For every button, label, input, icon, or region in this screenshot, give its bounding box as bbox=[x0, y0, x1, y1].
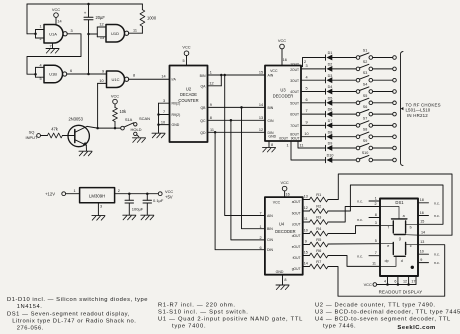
svg-text:7: 7 bbox=[163, 110, 165, 114]
svg-text:276-056.: 276-056. bbox=[17, 325, 44, 331]
svg-text:fOUT: fOUT bbox=[293, 256, 301, 260]
switch S2 bbox=[356, 60, 372, 71]
svg-text:11: 11 bbox=[133, 28, 137, 32]
svg-text:VCC: VCC bbox=[52, 7, 60, 12]
U1A pin labels bbox=[39, 19, 72, 48]
capacitor 0.1uF bbox=[143, 194, 164, 215]
svg-text:n.c.: n.c. bbox=[357, 218, 363, 222]
wire S2 to choke terminal bbox=[373, 67, 397, 71]
svg-text:10: 10 bbox=[161, 120, 165, 124]
wire R3 to DS1 pin2 bbox=[328, 207, 380, 223]
switch S1 bbox=[356, 49, 372, 60]
wire bbox=[141, 4, 143, 10]
svg-text:10: 10 bbox=[304, 132, 308, 136]
svg-text:dp: dp bbox=[385, 259, 389, 263]
svg-text:3: 3 bbox=[305, 64, 307, 68]
wire D9 to S9 bbox=[332, 147, 356, 149]
wire S1 to choke terminal bbox=[373, 56, 397, 60]
svg-text:type 7400.: type 7400. bbox=[172, 324, 206, 330]
diode D5 bbox=[326, 96, 333, 105]
terminal VCC DS1 bbox=[364, 282, 377, 287]
svg-text:6OUT: 6OUT bbox=[290, 113, 299, 117]
svg-text:SeekIC.com: SeekIC.com bbox=[397, 325, 435, 331]
svg-text:S9: S9 bbox=[363, 139, 368, 143]
svg-text:b: b bbox=[410, 226, 412, 230]
resistor 10k bbox=[113, 108, 127, 122]
DS1 pin3 label bbox=[375, 221, 377, 225]
svg-text:n.c.: n.c. bbox=[434, 201, 440, 205]
svg-text:AIN: AIN bbox=[267, 214, 273, 218]
svg-text:DIN: DIN bbox=[268, 131, 275, 135]
wire QA drop bbox=[225, 75, 265, 216]
wire bbox=[27, 30, 44, 39]
ground emitter bbox=[79, 145, 92, 156]
switch S6 bbox=[356, 105, 372, 116]
NAND gate U1D bbox=[106, 25, 129, 43]
svg-text:3: 3 bbox=[70, 29, 72, 33]
svg-text:VCC: VCC bbox=[273, 200, 281, 204]
svg-text:D7: D7 bbox=[328, 119, 333, 123]
svg-text:QD: QD bbox=[200, 131, 206, 135]
svg-text:R2: R2 bbox=[316, 204, 321, 209]
svg-text:7: 7 bbox=[375, 251, 377, 255]
svg-text:12: 12 bbox=[209, 81, 213, 85]
svg-text:BIN: BIN bbox=[268, 106, 274, 110]
diode D6 bbox=[326, 108, 333, 117]
wire D4 to S4 bbox=[332, 91, 356, 93]
svg-text:14: 14 bbox=[259, 103, 263, 107]
resistor R7 bbox=[310, 259, 329, 269]
caption column 2 bbox=[158, 303, 303, 330]
switch S5 bbox=[356, 94, 372, 105]
decoder U3 box bbox=[265, 66, 301, 142]
wire U3 out5 bbox=[301, 98, 326, 103]
wire QA node bbox=[208, 74, 266, 86]
svg-text:HOLD: HOLD bbox=[130, 127, 141, 132]
svg-text:0OUT: 0OUT bbox=[279, 137, 288, 141]
svg-text:6: 6 bbox=[259, 246, 261, 250]
svg-text:U3: U3 bbox=[280, 88, 286, 93]
U3 left pin labels bbox=[259, 71, 274, 135]
svg-text:DECADE: DECADE bbox=[180, 92, 197, 97]
switch S4 bbox=[356, 83, 372, 94]
wire U3 out8 bbox=[301, 132, 326, 137]
Vcc terminal U2 pin 5 bbox=[182, 45, 190, 66]
svg-text:U2 — Decade counter, TTL type: U2 — Decade counter, TTL type 7490. bbox=[315, 303, 436, 309]
U1C pin labels bbox=[99, 69, 135, 83]
wire bbox=[129, 26, 143, 33]
ground U3 pin 8 bbox=[263, 141, 276, 152]
svg-text:aOUT: aOUT bbox=[292, 200, 301, 204]
svg-text:I/A: I/A bbox=[172, 78, 177, 82]
svg-text:11: 11 bbox=[304, 217, 308, 221]
DS1 pin15 label bbox=[420, 220, 424, 224]
svg-text:8: 8 bbox=[133, 74, 135, 78]
svg-text:5: 5 bbox=[305, 87, 307, 91]
wire QD drop bbox=[215, 132, 265, 249]
svg-text:+12V: +12V bbox=[45, 191, 55, 196]
wire DS1 common bbox=[377, 276, 416, 286]
svg-text:S5: S5 bbox=[363, 94, 368, 98]
svg-text:47k: 47k bbox=[51, 127, 59, 132]
wire U1C in10 bbox=[98, 83, 107, 128]
wire R1 to DS1 pin14 bbox=[328, 174, 452, 235]
DS1 pin5 label bbox=[375, 239, 377, 243]
Vcc terminal U3 pin 16 bbox=[278, 38, 287, 66]
svg-text:14: 14 bbox=[57, 19, 61, 23]
svg-text:COUNTER: COUNTER bbox=[178, 98, 198, 103]
svg-text:10: 10 bbox=[420, 250, 424, 254]
svg-text:D1: D1 bbox=[328, 51, 333, 55]
diode D4 bbox=[326, 85, 333, 94]
svg-text:15: 15 bbox=[420, 220, 424, 224]
svg-text:U1D: U1D bbox=[111, 31, 119, 36]
svg-text:8: 8 bbox=[284, 278, 286, 282]
wire pin2 to a bbox=[380, 207, 399, 219]
svg-text:D8: D8 bbox=[328, 130, 333, 134]
junction bbox=[87, 73, 90, 76]
U1D pin labels bbox=[99, 22, 137, 40]
wire D3 to S3 bbox=[332, 79, 356, 81]
svg-text:1: 1 bbox=[39, 25, 41, 29]
svg-text:g: g bbox=[399, 237, 401, 241]
segment f bbox=[388, 221, 394, 233]
wire QC drop bbox=[231, 120, 265, 240]
svg-text:D4: D4 bbox=[328, 85, 333, 89]
svg-text:BIN: BIN bbox=[267, 227, 273, 231]
diode D2 bbox=[326, 63, 333, 72]
svg-text:TO RF CHOKES: TO RF CHOKES bbox=[406, 102, 441, 107]
svg-text:10k: 10k bbox=[120, 109, 128, 114]
svg-text:IN HR212: IN HR212 bbox=[407, 113, 428, 118]
Vcc terminal U1A pin 14 bbox=[52, 7, 60, 24]
svg-text:14: 14 bbox=[304, 262, 308, 266]
svg-text:DS1 — Seven-segment readout di: DS1 — Seven-segment readout display, bbox=[7, 312, 130, 318]
wire bbox=[114, 122, 117, 130]
svg-text:1: 1 bbox=[210, 71, 212, 75]
svg-text:VCC: VCC bbox=[278, 38, 286, 43]
svg-text:n.c.: n.c. bbox=[357, 200, 363, 204]
svg-text:14: 14 bbox=[161, 74, 165, 78]
svg-text:QB: QB bbox=[200, 106, 206, 110]
svg-text:5: 5 bbox=[182, 59, 184, 63]
segment b bbox=[406, 221, 412, 233]
svg-text:9: 9 bbox=[102, 69, 104, 73]
switch S9 bbox=[356, 139, 372, 150]
wire QB bbox=[208, 106, 266, 109]
decoder U4 box bbox=[265, 197, 303, 275]
svg-text:R6: R6 bbox=[316, 248, 321, 253]
wire bbox=[41, 135, 48, 137]
wire U3 out9 bbox=[298, 141, 326, 148]
svg-text:S3: S3 bbox=[363, 71, 368, 75]
svg-text:9: 9 bbox=[210, 103, 212, 107]
segment c bbox=[406, 243, 412, 255]
svg-text:13: 13 bbox=[259, 116, 263, 120]
switch S10 bbox=[356, 151, 372, 162]
svg-text:3: 3 bbox=[375, 221, 377, 225]
switch S7 bbox=[356, 116, 372, 127]
svg-text:R5: R5 bbox=[316, 237, 321, 242]
wire bbox=[66, 189, 80, 194]
DS1 pin16 nc bbox=[418, 211, 440, 218]
segment d bbox=[394, 256, 405, 263]
svg-text:1000: 1000 bbox=[147, 16, 157, 21]
svg-text:U1C: U1C bbox=[111, 77, 119, 82]
ground HOLD bbox=[133, 138, 146, 143]
DS1 pin13 label bbox=[420, 240, 424, 244]
wire R4 to DS1 pin3 bbox=[328, 226, 380, 234]
switch S3 bbox=[356, 71, 372, 82]
svg-text:S10: S10 bbox=[362, 151, 369, 155]
svg-text:6: 6 bbox=[70, 69, 72, 73]
svg-text:D6: D6 bbox=[328, 108, 333, 112]
svg-text:2: 2 bbox=[118, 189, 120, 193]
Vcc terminal U4 pin 16 bbox=[280, 180, 289, 197]
svg-text:D1-D10 incl. — Silicon switchi: D1-D10 incl. — Silicon switching diodes,… bbox=[7, 297, 148, 303]
wire S9 to choke terminal bbox=[373, 146, 397, 150]
terminal +12V bbox=[45, 191, 66, 196]
svg-text:L501—L510: L501—L510 bbox=[406, 108, 431, 113]
svg-text:100µF: 100µF bbox=[132, 206, 144, 211]
svg-text:15: 15 bbox=[259, 71, 263, 75]
svg-text:9: 9 bbox=[305, 121, 307, 125]
U2 pin14 label bbox=[161, 74, 176, 81]
resistor R4 bbox=[310, 226, 329, 236]
wire pin13 to c bbox=[406, 244, 418, 246]
svg-text:VCC: VCC bbox=[364, 282, 372, 287]
svg-text:4: 4 bbox=[305, 75, 307, 79]
DS1 pin2 label bbox=[374, 202, 376, 206]
U4 out pin 12 bbox=[292, 206, 310, 215]
svg-text:9: 9 bbox=[305, 240, 307, 244]
svg-text:7OUT: 7OUT bbox=[290, 124, 299, 128]
resistor 47k bbox=[47, 127, 62, 138]
svg-text:1: 1 bbox=[375, 196, 377, 200]
svg-text:VCC: VCC bbox=[270, 69, 278, 73]
wire pin14 to g bbox=[405, 234, 418, 236]
svg-text:1: 1 bbox=[259, 225, 261, 229]
svg-text:+5V: +5V bbox=[165, 194, 173, 199]
svg-text:GND: GND bbox=[276, 270, 284, 274]
NAND gate U1A bbox=[44, 25, 67, 44]
svg-text:S8: S8 bbox=[363, 128, 368, 132]
svg-text:13: 13 bbox=[304, 195, 308, 199]
wire U3 out3 bbox=[301, 75, 326, 80]
wire bbox=[62, 135, 68, 137]
svg-text:CIN: CIN bbox=[268, 119, 275, 123]
svg-text:D2: D2 bbox=[328, 63, 333, 67]
svg-text:S4: S4 bbox=[363, 83, 368, 87]
ground cap1 bbox=[123, 215, 136, 220]
capacitor 100uF bbox=[125, 194, 144, 215]
display DS1 box bbox=[380, 199, 418, 277]
svg-text:GND: GND bbox=[172, 123, 180, 127]
U4 left pin labels bbox=[259, 212, 273, 252]
wire R7 to DS1 pin13 bbox=[328, 245, 445, 297]
diode D8 bbox=[326, 130, 333, 139]
decimal point bbox=[385, 259, 414, 269]
segment a bbox=[392, 214, 407, 219]
svg-text:R1-R7 incl. — 220 ohm.: R1-R7 incl. — 220 ohm. bbox=[158, 303, 236, 309]
svg-text:S1: S1 bbox=[363, 49, 368, 53]
label TO RF CHOKES bbox=[406, 102, 441, 118]
watermark SeekIC.com bbox=[397, 325, 435, 331]
wire U3 out6 bbox=[301, 109, 326, 114]
wire U3 out7 bbox=[301, 121, 326, 126]
svg-text:11: 11 bbox=[372, 262, 376, 266]
wire S4 to choke terminal bbox=[373, 90, 397, 94]
DS1 pin14 label bbox=[421, 231, 425, 235]
svg-text:2OUT: 2OUT bbox=[290, 68, 299, 72]
svg-text:VCC: VCC bbox=[111, 93, 119, 98]
svg-text:LM309H: LM309H bbox=[89, 194, 105, 199]
wire QB drop bbox=[242, 107, 265, 228]
wire S3 to choke terminal bbox=[373, 78, 397, 82]
junction bbox=[87, 33, 90, 36]
svg-text:9OUT: 9OUT bbox=[291, 137, 300, 141]
wire pin5 to e bbox=[380, 243, 393, 245]
svg-text:BIN: BIN bbox=[200, 74, 206, 78]
svg-text:R9(2): R9(2) bbox=[172, 113, 181, 117]
svg-text:S7: S7 bbox=[363, 116, 368, 120]
wire S10 to choke terminal bbox=[373, 158, 397, 162]
svg-text:VCC: VCC bbox=[165, 189, 173, 194]
svg-text:DIN: DIN bbox=[267, 248, 274, 252]
svg-text:D9: D9 bbox=[328, 142, 333, 146]
svg-text:12: 12 bbox=[259, 128, 263, 132]
wire S7 to choke terminal bbox=[373, 124, 397, 128]
U4 out pin 15 bbox=[293, 251, 310, 260]
svg-text:16: 16 bbox=[283, 58, 287, 62]
svg-text:bOUT: bOUT bbox=[292, 211, 301, 215]
ground cap2 bbox=[141, 215, 154, 220]
svg-text:6: 6 bbox=[305, 98, 307, 102]
svg-text:10: 10 bbox=[304, 229, 308, 233]
wire R6 to DS1 pin11 bbox=[328, 256, 380, 267]
svg-text:3OUT: 3OUT bbox=[290, 79, 299, 83]
wire D1 to S1 bbox=[332, 57, 356, 59]
resistor R6 bbox=[310, 248, 329, 258]
svg-text:eOUT: eOUT bbox=[292, 245, 301, 249]
svg-text:16: 16 bbox=[285, 192, 289, 196]
svg-text:n.c.: n.c. bbox=[434, 214, 440, 218]
svg-text:S2: S2 bbox=[363, 60, 368, 64]
svg-text:8: 8 bbox=[271, 143, 273, 147]
svg-text:n.c.: n.c. bbox=[434, 261, 440, 265]
resistor R1 bbox=[310, 192, 329, 202]
svg-text:U3 — BCD-to-decimal decoder, T: U3 — BCD-to-decimal decoder, TTL type 74… bbox=[315, 310, 460, 316]
wire U3 out0 bbox=[286, 141, 325, 160]
wire R5 to DS1 pin5 bbox=[328, 243, 380, 245]
svg-text:SCAN: SCAN bbox=[139, 116, 150, 121]
DS1 pin7 nc bbox=[357, 251, 380, 258]
wire U3 out2 bbox=[301, 64, 326, 69]
wire R2 to DS1 pin15 bbox=[328, 185, 443, 224]
svg-text:S1-S10 incl. — Spst switch.: S1-S10 incl. — Spst switch. bbox=[158, 310, 249, 316]
svg-text:AIN: AIN bbox=[268, 74, 274, 78]
svg-text:gOUT: gOUT bbox=[292, 267, 301, 271]
svg-text:10: 10 bbox=[99, 79, 103, 83]
U4 out pin 11 bbox=[292, 217, 310, 226]
wire pin15 to b bbox=[406, 223, 418, 225]
segment g bbox=[394, 235, 405, 241]
wire U1C out to U2 bbox=[129, 78, 170, 80]
resistor R5 bbox=[310, 237, 329, 247]
svg-text:R3: R3 bbox=[316, 215, 321, 220]
U3 right out labels bbox=[279, 62, 299, 140]
svg-text:7: 7 bbox=[259, 212, 261, 216]
wire D6 to S6 bbox=[332, 113, 356, 115]
svg-text:R0(2): R0(2) bbox=[172, 102, 181, 106]
svg-text:GND: GND bbox=[268, 134, 276, 138]
wire node bbox=[98, 127, 121, 129]
svg-text:D10: D10 bbox=[327, 154, 334, 158]
svg-text:U1 — Quad 2-input positive NAN: U1 — Quad 2-input positive NAND gate, TT… bbox=[158, 317, 303, 323]
svg-text:U1A: U1A bbox=[49, 31, 57, 36]
U2 right pin labels bbox=[200, 71, 214, 135]
wire D7 to S7 bbox=[332, 124, 356, 126]
svg-text:3: 3 bbox=[163, 99, 165, 103]
bracket RF chokes bbox=[401, 52, 404, 166]
DS1 pin10 nc bbox=[418, 250, 440, 257]
svg-text:4: 4 bbox=[384, 279, 386, 283]
diode D9 bbox=[326, 142, 333, 151]
svg-text:INPUT: INPUT bbox=[26, 135, 39, 140]
Vcc terminal 10k bbox=[111, 93, 119, 107]
svg-text:5OUT: 5OUT bbox=[290, 101, 299, 105]
wire pin11 to d bbox=[380, 256, 396, 266]
U4 out pin 13 bbox=[292, 195, 310, 204]
wire D2 to S2 bbox=[332, 68, 356, 70]
wire D8 to S8 bbox=[332, 136, 356, 138]
ground U4 pin 8 bbox=[276, 275, 289, 290]
svg-text:e: e bbox=[387, 244, 389, 248]
wire QC bbox=[208, 119, 266, 122]
svg-text:4OUT: 4OUT bbox=[290, 90, 299, 94]
svg-text:VCC: VCC bbox=[280, 180, 288, 185]
svg-text:S6: S6 bbox=[363, 105, 368, 109]
svg-text:0.1µF: 0.1µF bbox=[153, 198, 164, 203]
svg-text:7: 7 bbox=[305, 109, 307, 113]
svg-text:U4: U4 bbox=[279, 222, 285, 227]
svg-text:20µF: 20µF bbox=[96, 15, 106, 20]
svg-text:2: 2 bbox=[374, 202, 376, 206]
diode D7 bbox=[326, 119, 333, 128]
U4 out pin 14 bbox=[292, 262, 310, 271]
svg-text:12: 12 bbox=[99, 22, 103, 26]
svg-text:dOUT: dOUT bbox=[292, 234, 301, 238]
svg-text:d: d bbox=[401, 259, 403, 263]
svg-text:3: 3 bbox=[100, 205, 102, 209]
svg-text:2: 2 bbox=[259, 236, 261, 240]
wire U3 out4 bbox=[301, 87, 326, 92]
svg-text:DECODER: DECODER bbox=[273, 94, 294, 99]
wire reg out bbox=[115, 189, 159, 195]
svg-text:1: 1 bbox=[286, 143, 288, 147]
svg-text:12: 12 bbox=[403, 279, 407, 283]
wire bbox=[27, 4, 142, 34]
wire collector bbox=[87, 126, 98, 128]
caption column 1 bbox=[7, 297, 148, 331]
svg-text:13: 13 bbox=[420, 240, 424, 244]
svg-text:18: 18 bbox=[420, 198, 424, 202]
wire bbox=[27, 34, 81, 74]
DS1 pin8 nc bbox=[357, 213, 380, 222]
svg-text:12: 12 bbox=[304, 206, 308, 210]
svg-text:DS1: DS1 bbox=[395, 200, 404, 205]
wire bbox=[34, 67, 44, 77]
